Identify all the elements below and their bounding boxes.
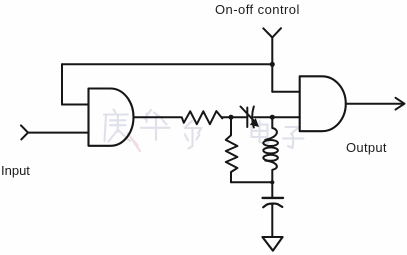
node resistor junction: [229, 115, 234, 120]
wire resistor to varactor: [223, 116, 248, 118]
resistor R1 horizontal: [182, 111, 223, 124]
gate U2: [300, 76, 346, 131]
wire to gate1 top input: [62, 104, 89, 106]
wire gate1 output: [134, 116, 182, 118]
wire bottom: [231, 181, 272, 183]
wire to capacitor: [271, 182, 273, 198]
capacitor C2 curved plate: [263, 204, 282, 208]
capacitor C1 arrow: [241, 107, 257, 124]
wire to ground: [271, 204, 273, 237]
capacitor C1 left plate: [246, 108, 248, 128]
watermark char 华: [141, 110, 170, 140]
input terminal: [21, 125, 28, 139]
watermark pink mark: [128, 134, 141, 152]
resistor R2 vertical: [226, 117, 238, 182]
node bottom junction: [270, 180, 274, 184]
watermark char 康: [104, 110, 130, 142]
capacitor C2 top plate: [263, 197, 283, 199]
wire output: [346, 103, 404, 105]
node feedback junction: [270, 62, 275, 67]
wire on-off to gate2 input: [272, 91, 299, 93]
watermark char 子: [283, 127, 304, 148]
wire feedback top: [62, 63, 272, 65]
wire input: [28, 132, 89, 134]
output arrowhead: [396, 98, 405, 110]
inductor L1: [263, 117, 278, 182]
label On-off control: [215, 2, 300, 17]
wire on-off vertical: [271, 38, 273, 92]
watermark char 尔: [185, 121, 202, 149]
node inductor junction: [270, 115, 275, 120]
on-off control terminal: [263, 28, 281, 37]
wire varactor to gate2: [254, 116, 300, 118]
gate U1: [89, 89, 134, 146]
label Output: [346, 140, 387, 155]
capacitor C1 curved plate: [252, 107, 254, 128]
wire feedback left vertical: [61, 64, 63, 104]
watermark char 电: [252, 121, 269, 143]
label Input: [1, 163, 30, 178]
ground: [262, 237, 282, 251]
